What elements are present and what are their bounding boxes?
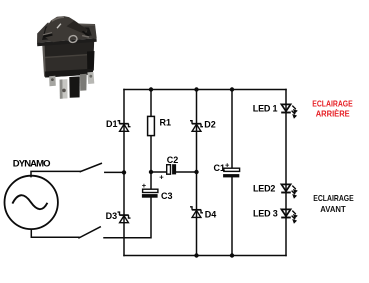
wire C2 left [151, 171, 167, 173]
wire top switch to node A [105, 171, 124, 173]
wire bottom rail [124, 255, 286, 257]
svg-text:+: + [225, 160, 230, 169]
svg-text:LED 1: LED 1 [253, 103, 278, 113]
node top rail / C1 [230, 87, 234, 91]
switch body block [42, 41, 94, 78]
pin back-left [49, 76, 56, 87]
node bottom rail / C1 [230, 253, 234, 257]
label ECLAIRAGE AVANT (black) [313, 193, 354, 214]
switch body left highlight [42, 45, 46, 77]
switch body mid band [44, 54, 93, 72]
pin back-left hole [51, 78, 54, 81]
svg-text:AVANT: AVANT [320, 205, 346, 214]
marking O [68, 35, 77, 43]
node top rail / D2 [194, 87, 198, 91]
svg-text:C2: C2 [167, 155, 179, 165]
bezel inner recess shadow [42, 27, 92, 41]
svg-text:D4: D4 [205, 210, 217, 220]
switch lever top [80, 163, 101, 171]
svg-text:D3: D3 [106, 211, 118, 221]
LED 2 [281, 184, 291, 192]
rocker top-right darker area [67, 21, 88, 34]
LED 2 arrows [292, 186, 298, 199]
switch body dark right tab [87, 51, 95, 71]
wire R1/C3 branch upper [150, 90, 152, 190]
node bottom rail / D4 [194, 253, 198, 257]
bezel front thickness [37, 38, 97, 46]
resistor R1 [148, 116, 155, 135]
bezel slot right light edge [82, 35, 89, 38]
junction dots [122, 87, 234, 257]
pin front-left [60, 79, 68, 99]
diode D2 [190, 121, 203, 132]
svg-text:+: + [159, 173, 164, 182]
svg-text:+: + [142, 181, 147, 190]
bezel slot right dark [82, 31, 90, 37]
capacitor C3 [142, 189, 158, 198]
diode D3 [118, 212, 131, 223]
marking I [57, 24, 61, 29]
diode D1 [118, 121, 131, 132]
wire C1 branch lower [231, 177, 233, 255]
svg-text:ECLAIRAGE: ECLAIRAGE [313, 193, 354, 203]
LED 1 [281, 104, 291, 112]
svg-text:C3: C3 [161, 191, 173, 201]
svg-text:C1: C1 [214, 163, 226, 173]
pin front-left hole [62, 89, 66, 93]
switch body seam line [44, 54, 93, 59]
svg-text:LED2: LED2 [253, 184, 275, 194]
node top rail / R1 [149, 87, 153, 91]
label ECLAIRAGE ARRIERE (red) [312, 99, 353, 119]
svg-text:D2: D2 [204, 119, 216, 129]
wire top rail [124, 89, 286, 91]
pin front-left shading [60, 79, 63, 98]
pin back-right [87, 72, 94, 84]
svg-text:D1: D1 [106, 119, 118, 129]
bezel slot left light edge [43, 32, 52, 36]
svg-text:ECLAIRAGE: ECLAIRAGE [312, 99, 353, 109]
LED 3 arrows [292, 211, 298, 224]
wire C1 branch upper [231, 90, 233, 169]
svg-text:R1: R1 [160, 117, 172, 127]
dynamo G1 [5, 176, 58, 229]
wire C2 right [176, 171, 196, 173]
node A dynamo top [122, 170, 126, 174]
wire dynamo bottom terminal [31, 230, 79, 238]
LED 3 [281, 209, 291, 217]
node C2 right [194, 170, 198, 174]
svg-text:DYNAMO: DYNAMO [13, 159, 50, 170]
node C2 left [149, 170, 153, 174]
bezel flange top face [37, 23, 97, 43]
diode D4 [190, 207, 203, 218]
wire dynamo top terminal [31, 171, 80, 176]
wire LED branch vertical [285, 90, 287, 256]
pin front-right [80, 74, 87, 91]
svg-text:LED 3: LED 3 [253, 209, 278, 219]
bezel top rim light [48, 23, 95, 26]
pin back-right hole [89, 75, 92, 78]
bezel slot left dark [43, 33, 52, 38]
switch lever bottom [79, 227, 100, 238]
switch body bottom dark [45, 69, 93, 78]
wire D2/D4 branch [196, 90, 198, 256]
wire left vertical rail [123, 90, 125, 256]
svg-text:ARRIÈRE: ARRIÈRE [316, 109, 351, 118]
capacitor C2 [167, 164, 176, 174]
wire R1/C3 branch lower + run to bottom switch [104, 198, 151, 238]
rocker cap face (with raised hump) [44, 16, 87, 42]
rocker hump ridge highlight [52, 17, 64, 21]
center post [69, 76, 80, 97]
capacitor C1 [223, 168, 240, 177]
LED 1 arrows [292, 106, 298, 119]
